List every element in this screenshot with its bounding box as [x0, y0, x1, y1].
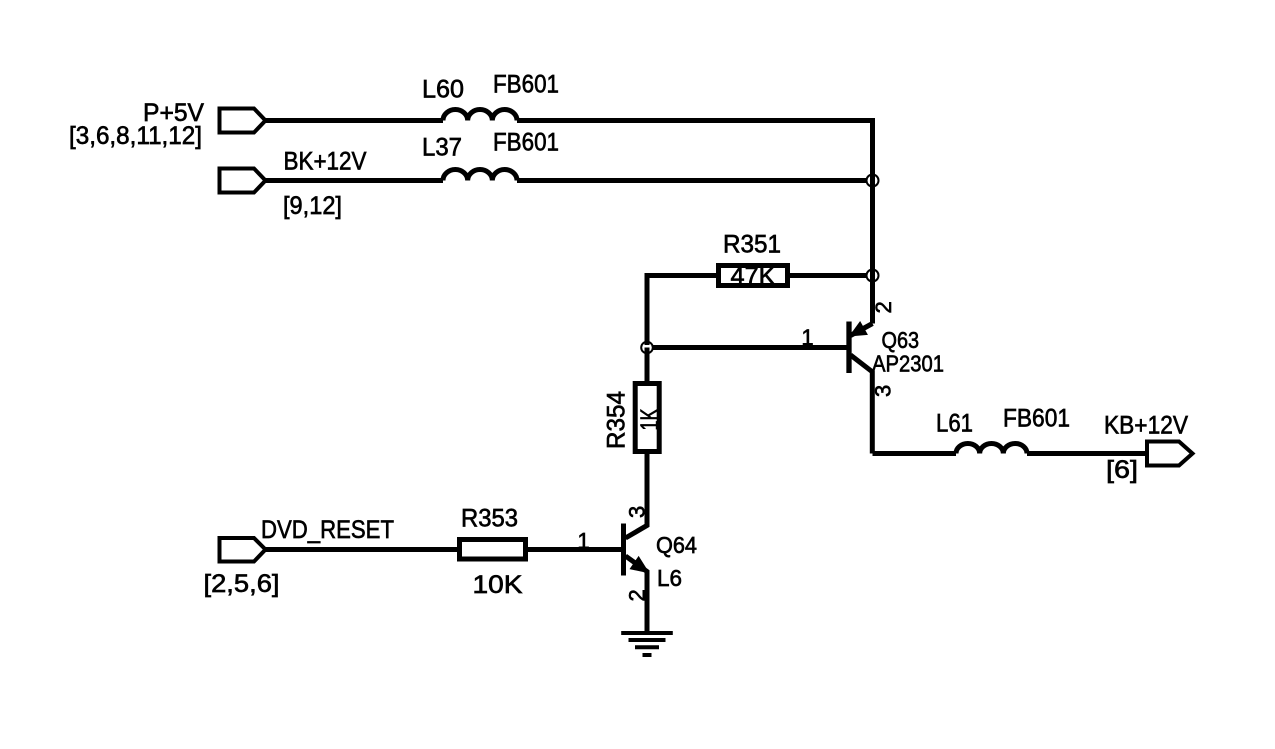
svg-text:L37: L37 [422, 134, 462, 162]
transistor Q64 [621, 524, 626, 576]
svg-text:L60: L60 [422, 76, 464, 104]
svg-text:FB601: FB601 [493, 71, 559, 99]
svg-text:2: 2 [625, 589, 650, 601]
svg-text:Q64: Q64 [656, 532, 697, 558]
wire node to Q63 base [653, 345, 847, 350]
wire BK+12V to L37 [266, 178, 444, 183]
wire P+5V to L60 [266, 118, 444, 123]
svg-text:[2,5,6]: [2,5,6] [204, 570, 280, 598]
port P+5V [220, 109, 266, 133]
svg-text:L6: L6 [657, 565, 682, 591]
wire Q63 emitter to L61 [873, 451, 957, 456]
svg-text:KB+12V: KB+12V [1104, 412, 1188, 440]
svg-text:47K: 47K [731, 263, 776, 291]
svg-text:2: 2 [871, 301, 896, 313]
wire L61 to port [1027, 451, 1147, 456]
ground [621, 631, 673, 635]
svg-text:1: 1 [577, 529, 589, 554]
svg-text:[3,6,8,11,12]: [3,6,8,11,12] [69, 122, 202, 150]
svg-text:3: 3 [625, 506, 650, 518]
svg-text:DVD_RESET: DVD_RESET [261, 516, 394, 544]
junction R351 rail [867, 270, 879, 282]
svg-text:R351: R351 [723, 231, 781, 259]
svg-text:FB601: FB601 [1003, 405, 1070, 433]
svg-text:R353: R353 [461, 505, 518, 533]
svg-text:10K: 10K [473, 571, 523, 599]
svg-text:R354: R354 [603, 391, 631, 449]
wire node down to R354 [645, 348, 650, 384]
svg-text:AP2301: AP2301 [872, 351, 944, 377]
inductor L61 [956, 443, 1027, 453]
wire R351 right [790, 273, 867, 278]
wire DVD_RESET to R353 [266, 547, 460, 552]
inductor L60 [443, 109, 517, 120]
svg-text:Q63: Q63 [882, 327, 920, 353]
svg-text:[9,12]: [9,12] [283, 192, 342, 220]
inductor L37 [443, 169, 517, 180]
wire L37 to right-rail [517, 178, 867, 183]
svg-text:BK+12V: BK+12V [284, 148, 367, 176]
port KB+12V [1147, 442, 1193, 466]
svg-text:FB601: FB601 [493, 129, 559, 157]
wire R351 left, down to node [647, 276, 716, 346]
junction BK+12V rail [867, 175, 879, 187]
svg-text:1: 1 [801, 325, 813, 350]
wire L60 to corner, down right-rail [517, 121, 873, 324]
wire R353 to Q64 base [526, 547, 622, 552]
svg-text:[6]: [6] [1106, 456, 1138, 484]
port BK+12V [220, 169, 266, 193]
resistor R351 [719, 266, 788, 286]
resistor R354 [635, 384, 659, 452]
svg-text:3: 3 [871, 385, 896, 397]
svg-text:1K: 1K [636, 408, 664, 430]
wire R354 to Q64 collector [645, 452, 650, 527]
svg-text:L61: L61 [936, 410, 973, 438]
node base Q63 [641, 342, 653, 354]
port DVD_RESET [220, 538, 266, 562]
resistor R353 [460, 540, 526, 560]
transistor Q63 [846, 322, 851, 374]
